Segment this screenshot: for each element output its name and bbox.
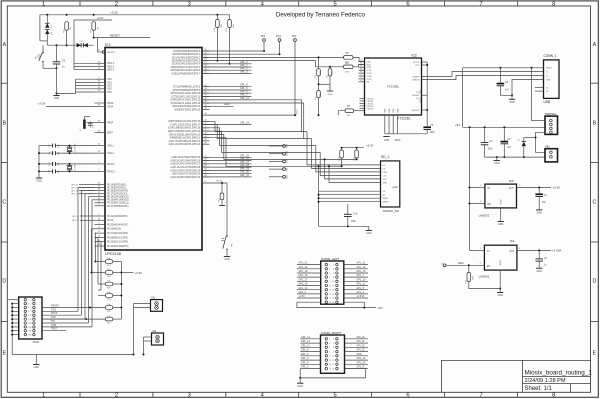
- svg-text:VSS: VSS: [107, 86, 112, 88]
- svg-text:10k: 10k: [70, 27, 72, 30]
- svg-text:5: 5: [333, 393, 336, 399]
- svg-text:6: 6: [406, 393, 409, 399]
- svg-text:GPL_8: GPL_8: [301, 349, 309, 352]
- svg-text:24: 24: [360, 63, 362, 65]
- svg-text:GND: GND: [384, 140, 389, 142]
- svg-text:GND: GND: [397, 108, 399, 113]
- svg-text:R14: R14: [214, 28, 216, 31]
- svg-text:LM2931: LM2931: [479, 275, 490, 279]
- svg-text:C13: C13: [49, 162, 51, 165]
- svg-text:EN2: EN2: [458, 261, 464, 265]
- svg-text:(CTS1/CAP1.1/SCL1)P0.11: (CTS1/CAP1.1/SCL1)P0.11: [171, 95, 200, 98]
- svg-text:/DTR: /DTR: [367, 73, 372, 75]
- svg-text:R3: R3: [315, 97, 317, 99]
- svg-text:OSCO: OSCO: [420, 97, 422, 103]
- svg-text:GPL_14: GPL_14: [240, 122, 250, 125]
- svg-text:/RTS: /RTS: [367, 67, 372, 69]
- svg-text:GPI_22: GPI_22: [357, 344, 366, 347]
- svg-text:(AD0.3/EINT3/TXD1)P0.30: (AD0.3/EINT3/TXD1)P0.30: [172, 173, 201, 176]
- svg-text:RTXC2: RTXC2: [107, 171, 115, 173]
- svg-text:5: 5: [329, 347, 330, 349]
- svg-text:CONN_RIGHT: CONN_RIGHT: [321, 331, 342, 335]
- svg-text:100k: 100k: [332, 71, 334, 75]
- svg-text:GND: GND: [494, 162, 500, 165]
- svg-text:P0.26(AD0.5): P0.26(AD0.5): [107, 228, 121, 231]
- svg-text:(DTR1/MAT1.1/AD1.4)P0.13: (DTR1/MAT1.1/AD1.4)P0.13: [171, 102, 201, 105]
- svg-text:2: 2: [115, 1, 118, 7]
- svg-text:9: 9: [329, 281, 330, 283]
- svg-text:10k: 10k: [97, 27, 99, 30]
- svg-text:31: 31: [360, 71, 362, 73]
- svg-text:JTAG: JTAG: [32, 340, 39, 344]
- svg-text:/RESET: /RESET: [107, 52, 116, 54]
- svg-text:18: 18: [30, 331, 32, 333]
- svg-text:IN: IN: [487, 187, 490, 190]
- svg-text:GPL_13: GPL_13: [301, 340, 310, 343]
- svg-text:20: 20: [30, 335, 32, 337]
- svg-text:+3.3V: +3.3V: [110, 11, 118, 15]
- svg-text:GND: GND: [389, 108, 391, 113]
- svg-text:GPL_12: GPL_12: [240, 97, 250, 100]
- svg-text:VDD-1: VDD-1: [107, 63, 115, 65]
- svg-text:10: 10: [332, 356, 334, 358]
- svg-text:15: 15: [329, 368, 331, 370]
- svg-text:(AD0.0/CAP0.1/RXD0)P0.27: (AD0.0/CAP0.1/RXD0)P0.27: [170, 163, 200, 166]
- svg-text:VDD-2: VDD-2: [107, 66, 115, 68]
- svg-text:GPI_18: GPI_18: [71, 190, 79, 192]
- svg-text:SD_1: SD_1: [381, 155, 389, 159]
- svg-text:(DSR1/MAT1.0/AD1.3)P0.12: (DSR1/MAT1.0/AD1.3)P0.12: [170, 99, 200, 102]
- svg-text:OUT: OUT: [509, 250, 515, 253]
- svg-text:GPL_23: GPL_23: [299, 262, 308, 265]
- svg-text:+3.3V: +3.3V: [552, 186, 560, 190]
- svg-text:(PWM5/AD1.6/CAP1.3)P0.21: (PWM5/AD1.6/CAP1.3)P0.21: [170, 137, 201, 140]
- svg-text:(MAT1.3/SSEL1/EINT3)P0.20: (MAT1.3/SSEL1/EINT3)P0.20: [169, 133, 200, 136]
- svg-text:P0.15(EINT2/RI1): P0.15(EINT2/RI1): [107, 188, 126, 190]
- svg-text:GPL_14: GPL_14: [299, 287, 308, 290]
- svg-text:GPI_27: GPI_27: [72, 220, 80, 222]
- svg-text:6MHz: 6MHz: [395, 140, 402, 142]
- svg-text:/DCD: /DCD: [367, 79, 373, 81]
- svg-text:GPI_26: GPI_26: [72, 216, 80, 218]
- svg-text:B: B: [3, 121, 7, 127]
- svg-text:11: 11: [329, 285, 331, 287]
- svg-text:(AD1.1/CAP0.1/MAT0.1)P0.23: (AD1.1/CAP0.1/MAT0.1)P0.23: [169, 143, 201, 146]
- svg-text:GPL_5: GPL_5: [357, 287, 365, 290]
- svg-text:GND: GND: [537, 270, 543, 273]
- svg-text:E: E: [3, 351, 7, 357]
- svg-text:(MOSI0/CAP0.2/AD1.0)P0.6: (MOSI0/CAP0.2/AD1.0)P0.6: [171, 69, 201, 72]
- svg-text:100k: 100k: [221, 24, 223, 28]
- svg-text:IC4: IC4: [510, 239, 515, 243]
- svg-text:10k: 10k: [107, 292, 110, 294]
- svg-text:EN: EN: [487, 203, 491, 206]
- svg-text:32.768k: 32.768k: [75, 164, 77, 171]
- svg-text:VCC: VCC: [383, 179, 388, 181]
- svg-text:P0.17(CAP1/SCK1): P0.17(CAP1/SCK1): [107, 193, 128, 196]
- svg-text:(AD0.4/AOUT/EINT0)P0.25: (AD0.4/AOUT/EINT0)P0.25: [172, 156, 201, 159]
- svg-text:(AD1.2/CAP0.0/MAT2)P1.16: (AD1.2/CAP0.0/MAT2)P1.16: [171, 176, 201, 179]
- svg-text:VSS: VSS: [107, 89, 112, 91]
- svg-text:P0.21(PWM5/CAP1): P0.21(PWM5/CAP1): [107, 205, 129, 208]
- svg-text:GND: GND: [509, 101, 515, 104]
- svg-text:+3.3VA: +3.3VA: [357, 295, 365, 298]
- svg-text:GND: GND: [224, 258, 230, 261]
- svg-text:M2: M2: [153, 330, 157, 333]
- svg-text:GND: GND: [357, 353, 363, 356]
- svg-text:TDI: TDI: [286, 167, 288, 171]
- svg-text:A: A: [3, 42, 7, 48]
- svg-text:GND: GND: [328, 94, 333, 96]
- svg-text:7: 7: [329, 277, 330, 279]
- svg-text:22: 22: [360, 68, 362, 70]
- svg-text:FT232BL: FT232BL: [387, 85, 400, 89]
- svg-text:RTXC1: RTXC1: [107, 164, 115, 166]
- svg-text:P0.30(AD0.3/EINT3): P0.30(AD0.3/EINT3): [107, 245, 129, 248]
- svg-text:GND: GND: [36, 180, 42, 183]
- svg-text:6: 6: [31, 307, 32, 309]
- svg-text:(MAT1.2/MOSI1/CAP1.2)P0.19: (MAT1.2/MOSI1/CAP1.2)P0.19: [168, 130, 201, 133]
- svg-text:P0.29(AD0.2/CAP0): P0.29(AD0.2/CAP0): [107, 241, 128, 244]
- svg-text:10k: 10k: [107, 258, 110, 260]
- svg-text:12: 12: [332, 360, 334, 362]
- svg-text:GPL_11: GPL_11: [357, 283, 366, 286]
- svg-text:3: 3: [188, 1, 191, 7]
- svg-text:8: 8: [333, 351, 334, 353]
- svg-text:GND2: GND2: [383, 198, 390, 200]
- svg-text:10k: 10k: [107, 316, 110, 318]
- svg-text:C12: C12: [49, 152, 51, 155]
- svg-text:4: 4: [333, 343, 334, 345]
- svg-text:4: 4: [31, 304, 32, 306]
- svg-text:10k: 10k: [107, 281, 110, 283]
- svg-text:GPI_16: GPI_16: [71, 184, 79, 186]
- svg-text:Developed by Terraneo Federico: Developed by Terraneo Federico: [276, 12, 366, 19]
- svg-text:16: 16: [332, 368, 334, 370]
- svg-text:FT232BL: FT232BL: [398, 116, 411, 120]
- svg-text:3V3OUT: 3V3OUT: [411, 110, 420, 112]
- svg-text:P0.14(EINT1/BSL): P0.14(EINT1/BSL): [107, 184, 127, 186]
- svg-text:C14: C14: [49, 170, 51, 173]
- svg-text:5: 5: [28, 307, 29, 309]
- svg-text:4: 4: [333, 269, 334, 271]
- svg-text:7: 7: [479, 393, 482, 399]
- svg-text:A: A: [593, 42, 597, 48]
- svg-text:/CTS: /CTS: [367, 70, 372, 72]
- svg-text:GPL_4: GPL_4: [301, 361, 309, 364]
- svg-text:GND: GND: [366, 232, 372, 235]
- svg-text:VSSA: VSSA: [107, 105, 114, 108]
- svg-text:8: 8: [552, 393, 555, 399]
- svg-text:GND: GND: [393, 108, 395, 113]
- svg-text:TP3: TP3: [292, 34, 297, 38]
- svg-text:VCCIO: VCCIO: [413, 62, 420, 64]
- svg-text:3: 3: [188, 393, 191, 399]
- svg-text:+3.3VA: +3.3VA: [552, 249, 562, 253]
- svg-text:17: 17: [329, 298, 331, 300]
- svg-text:14.7456M: 14.7456M: [75, 143, 77, 152]
- svg-text:R15: R15: [226, 28, 228, 31]
- svg-text:µSD: µSD: [392, 185, 398, 189]
- svg-text:(CAP1.2/SCK1/AD1.6)P0.17: (CAP1.2/SCK1/AD1.6)P0.17: [170, 124, 200, 127]
- svg-text:GPL_22: GPL_22: [299, 266, 308, 269]
- svg-text:9: 9: [360, 77, 361, 79]
- svg-text:GPI_19: GPI_19: [71, 194, 79, 196]
- svg-text:10k: 10k: [107, 269, 110, 271]
- svg-text:P0.20(MAT1/SSEL1): P0.20(MAT1/SSEL1): [107, 202, 129, 205]
- svg-text:R2: R2: [315, 75, 317, 77]
- svg-text:GPL_16: GPL_16: [299, 274, 308, 277]
- svg-text:C: C: [2, 200, 6, 206]
- svg-text:3: 3: [329, 269, 330, 271]
- svg-text:P0.12: P0.12: [297, 110, 299, 115]
- svg-text:3: 3: [329, 343, 330, 345]
- svg-text:GND: GND: [501, 199, 503, 204]
- svg-text:1: 1: [28, 300, 29, 302]
- svg-text:(EINT0/MAT0.2/CAP0.2)P0.16: (EINT0/MAT0.2/CAP0.2)P0.16: [168, 120, 200, 123]
- svg-text:(RTS1/CAP1.0/AD1.2)P0.10: (RTS1/CAP1.0/AD1.2)P0.10: [171, 92, 201, 95]
- svg-text:(AD1.7/CAP0.0/MAT0.0)P0.22: (AD1.7/CAP0.0/MAT0.0)P0.22: [169, 140, 201, 143]
- svg-text:(AD0.2/CAP0.3/RXD1)P0.29: (AD0.2/CAP0.3/RXD1)P0.29: [170, 169, 200, 172]
- svg-text:VREF: VREF: [107, 123, 114, 125]
- svg-text:(RXD0/PWM3/EINT1)P0.1: (RXD0/PWM3/EINT1)P0.1: [173, 54, 201, 56]
- svg-text:VBUS: VBUS: [546, 68, 552, 70]
- svg-text:P0.22(CAP0/MAT0): P0.22(CAP0/MAT0): [107, 215, 128, 218]
- svg-text:D: D: [2, 279, 6, 285]
- svg-text:13: 13: [329, 290, 331, 292]
- svg-text:OUT: OUT: [509, 187, 515, 190]
- svg-text:C8: C8: [93, 126, 95, 128]
- svg-text:TDO: TDO: [51, 308, 56, 311]
- svg-text:GPI_23: GPI_23: [357, 349, 366, 352]
- svg-text:C10: C10: [353, 213, 358, 216]
- svg-text:(CAP1.3/MISO1/MAT1.3)P0.18: (CAP1.3/MISO1/MAT1.3)P0.18: [168, 127, 201, 130]
- svg-text:TDI: TDI: [51, 320, 55, 323]
- svg-text:6: 6: [360, 80, 361, 82]
- svg-text:14: 14: [332, 290, 334, 292]
- svg-text:2/24/09 1:28 PM: 2/24/09 1:28 PM: [525, 378, 566, 384]
- svg-text:GPL_10: GPL_10: [357, 278, 366, 281]
- svg-text:R16: R16: [466, 280, 468, 283]
- svg-text:USBDP: USBDP: [412, 76, 420, 78]
- svg-text:18p: 18p: [58, 152, 60, 155]
- svg-text:15: 15: [329, 294, 331, 296]
- svg-text:2: 2: [333, 339, 334, 341]
- svg-text:CBUS4: CBUS4: [367, 108, 375, 110]
- svg-text:E: E: [593, 351, 597, 357]
- svg-text:GND: GND: [546, 79, 551, 81]
- svg-text:GND: GND: [383, 182, 388, 184]
- svg-text:P0.25(AD0.4/AOUT): P0.25(AD0.4/AOUT): [107, 224, 128, 227]
- svg-text:7: 7: [28, 311, 29, 313]
- svg-text:2: 2: [333, 265, 334, 267]
- svg-text:IC2: IC2: [412, 54, 417, 58]
- svg-text:2: 2: [115, 393, 118, 399]
- svg-text:B: B: [593, 121, 597, 127]
- svg-text:MICRO_SD: MICRO_SD: [383, 209, 400, 213]
- svg-text:TCK: TCK: [51, 316, 56, 319]
- svg-text:18p: 18p: [58, 170, 60, 173]
- svg-text:XTAL2: XTAL2: [107, 152, 115, 155]
- svg-text:TP1: TP1: [261, 34, 266, 38]
- svg-text:TP2: TP2: [276, 34, 281, 38]
- svg-text:(SCK0/CAP0.1/AD0.6)P0.4: (SCK0/CAP0.1/AD0.6)P0.4: [172, 63, 201, 66]
- svg-text:10k: 10k: [107, 304, 110, 306]
- svg-text:11: 11: [329, 360, 331, 362]
- svg-text:LPC2138: LPC2138: [105, 252, 121, 256]
- svg-text:GPL_14: GPL_14: [301, 336, 310, 339]
- svg-text:+5V: +5V: [455, 123, 460, 127]
- svg-text:+5V: +5V: [377, 306, 382, 310]
- svg-text:VDD-3: VDD-3: [107, 70, 115, 72]
- svg-text:GPL_24: GPL_24: [357, 357, 366, 360]
- svg-text:18p: 18p: [58, 144, 60, 147]
- svg-text:GPL_12: GPL_12: [301, 344, 310, 347]
- svg-text:18: 18: [332, 298, 334, 300]
- svg-text:12: 12: [30, 319, 32, 321]
- svg-text:6: 6: [333, 347, 334, 349]
- svg-text:GPL_15: GPL_15: [357, 266, 366, 269]
- svg-text:GPL_21: GPL_21: [357, 262, 366, 265]
- svg-text:6: 6: [333, 273, 334, 275]
- svg-text:100k: 100k: [472, 276, 474, 280]
- svg-text:VDDA: VDDA: [107, 102, 114, 105]
- svg-text:+3.3V: +3.3V: [299, 295, 306, 298]
- svg-text:1: 1: [329, 339, 330, 341]
- svg-text:GPL_3: GPL_3: [299, 291, 307, 294]
- svg-text:P0.23: P0.23: [107, 220, 114, 222]
- svg-text:PWRSEL: PWRSEL: [545, 112, 557, 116]
- svg-text:14: 14: [332, 364, 334, 366]
- svg-text:C11: C11: [49, 144, 51, 147]
- svg-text:8: 8: [31, 311, 32, 313]
- svg-text:7: 7: [479, 1, 482, 7]
- svg-text:P0.16(EINT0/MAT0): P0.16(EINT0/MAT0): [107, 190, 128, 193]
- svg-text:P0.18(CAP1/MISO1): P0.18(CAP1/MISO1): [107, 196, 129, 199]
- svg-text:100k: 100k: [320, 93, 322, 97]
- svg-text:R11: R11: [353, 157, 355, 160]
- svg-text:(AD0.1/CAP0.2/TXD0)P0.28: (AD0.1/CAP0.2/TXD0)P0.28: [171, 166, 201, 169]
- svg-text:GPL_31: GPL_31: [240, 174, 250, 177]
- svg-text:Sheet: 1/1: Sheet: 1/1: [525, 386, 553, 392]
- svg-text:GPL_2: GPL_2: [301, 366, 309, 369]
- svg-text:(SDA0/MAT0.0/EINT3)P0.3: (SDA0/MAT0.0/EINT3)P0.3: [172, 60, 201, 63]
- svg-text:RESET: RESET: [51, 305, 60, 308]
- svg-text:+3.3V: +3.3V: [135, 271, 143, 275]
- svg-text:1: 1: [42, 1, 45, 7]
- svg-text:2: 2: [360, 74, 361, 76]
- svg-text:P0.19(MAT1/MOSI1): P0.19(MAT1/MOSI1): [107, 199, 129, 202]
- svg-text:GPI_21: GPI_21: [357, 340, 366, 343]
- svg-text:(RI1/EINT2/AD1.5)P0.15: (RI1/EINT2/AD1.5)P0.15: [174, 109, 200, 112]
- svg-text:100n: 100n: [351, 221, 357, 223]
- svg-text:C: C: [593, 200, 597, 206]
- svg-text:(DCD1/EINT1/SDA1)P0.14: (DCD1/EINT1/SDA1)P0.14: [172, 105, 201, 108]
- svg-text:3: 3: [28, 304, 29, 306]
- svg-text:VSS: VSS: [107, 79, 112, 81]
- svg-text:(TXD1/PWM4/AD1.1)P0.8: (TXD1/PWM4/AD1.1)P0.8: [173, 86, 201, 89]
- svg-text:GPL_17: GPL_17: [299, 278, 308, 281]
- svg-text:8: 8: [333, 277, 334, 279]
- svg-text:EN: EN: [487, 265, 491, 268]
- svg-text:100n: 100n: [487, 149, 493, 151]
- svg-text:100n: 100n: [430, 132, 436, 134]
- svg-text:GND: GND: [54, 97, 60, 100]
- svg-text:RTCK: RTCK: [51, 312, 58, 315]
- svg-text:GPL_25: GPL_25: [357, 361, 366, 364]
- svg-text:16: 16: [30, 327, 32, 329]
- svg-text:CLK: CLK: [383, 175, 388, 177]
- svg-text:100k: 100k: [320, 71, 322, 75]
- svg-text:VCC: VCC: [415, 65, 420, 67]
- svg-text:19: 19: [329, 302, 331, 304]
- svg-text:2: 2: [31, 300, 32, 302]
- svg-text:(TXD0/PWM1/EINT0)P0.0: (TXD0/PWM1/EINT0)P0.0: [173, 51, 201, 53]
- svg-text:GND: GND: [298, 385, 304, 388]
- svg-text:5: 5: [329, 273, 330, 275]
- svg-text:GPI_17: GPI_17: [71, 187, 79, 189]
- svg-text:GND: GND: [500, 260, 502, 265]
- svg-text:RESET: RESET: [110, 33, 120, 37]
- svg-text:CMD: CMD: [383, 172, 388, 174]
- svg-text:+3.3V: +3.3V: [38, 102, 46, 106]
- svg-text:TMS: TMS: [51, 324, 56, 327]
- svg-text:USBDM: USBDM: [412, 80, 420, 82]
- svg-text:GPL_13: GPL_13: [357, 270, 366, 273]
- svg-text:/RI: /RI: [367, 82, 370, 84]
- svg-text:VSS: VSS: [107, 92, 112, 94]
- svg-text:GND: GND: [537, 212, 543, 215]
- svg-text:GPL_5: GPL_5: [301, 357, 309, 360]
- svg-text:GND: GND: [498, 294, 504, 297]
- svg-text:CONN_1: CONN_1: [544, 54, 557, 58]
- svg-text:TMS: TMS: [286, 174, 288, 179]
- svg-text:LM2931: LM2931: [479, 213, 490, 217]
- svg-text:18p: 18p: [58, 163, 60, 166]
- svg-text:R12: R12: [338, 157, 340, 160]
- svg-text:8: 8: [552, 1, 555, 7]
- svg-text:1: 1: [329, 265, 330, 267]
- svg-text:(MISO0/MAT0.1/AD0.7)P0.5: (MISO0/MAT0.1/AD0.7)P0.5: [171, 66, 201, 69]
- svg-text:100k: 100k: [233, 24, 235, 28]
- svg-text:VSS: VSS: [107, 82, 112, 84]
- svg-text:D: D: [593, 279, 597, 285]
- svg-text:(SCL0/CAP0.0/EINT2)P0.2: (SCL0/CAP0.0/EINT2)P0.2: [172, 56, 201, 59]
- svg-text:1: 1: [42, 393, 45, 399]
- svg-text:D-: D-: [546, 75, 549, 77]
- svg-text:14: 14: [30, 323, 32, 325]
- svg-text:CONN_LEFT: CONN_LEFT: [321, 257, 340, 261]
- svg-text:+3.3V: +3.3V: [97, 16, 104, 20]
- svg-text:R13: R13: [219, 199, 221, 202]
- svg-text:13: 13: [329, 364, 331, 366]
- svg-text:GPI_20: GPI_20: [357, 336, 366, 339]
- svg-text:7: 7: [329, 351, 330, 353]
- svg-text:GPL_18: GPL_18: [299, 270, 308, 273]
- svg-text:GPL_7: GPL_7: [357, 274, 365, 277]
- svg-text:P0.27(AD0.0/CAP0): P0.27(AD0.0/CAP0): [107, 232, 128, 235]
- svg-text:5: 5: [333, 1, 336, 7]
- svg-text:10: 10: [332, 281, 334, 283]
- svg-text:GND: GND: [34, 366, 40, 369]
- svg-text:VIN: VIN: [545, 144, 550, 148]
- svg-text:P0.28(AD0.1/CAP0): P0.28(AD0.1/CAP0): [107, 236, 128, 239]
- svg-text:GND3: GND3: [383, 202, 390, 204]
- svg-text:TRST: TRST: [51, 328, 58, 331]
- svg-text:TXD: TXD: [367, 61, 372, 63]
- svg-text:XTAL1: XTAL1: [107, 145, 115, 148]
- svg-text:IC1: IC1: [105, 43, 111, 47]
